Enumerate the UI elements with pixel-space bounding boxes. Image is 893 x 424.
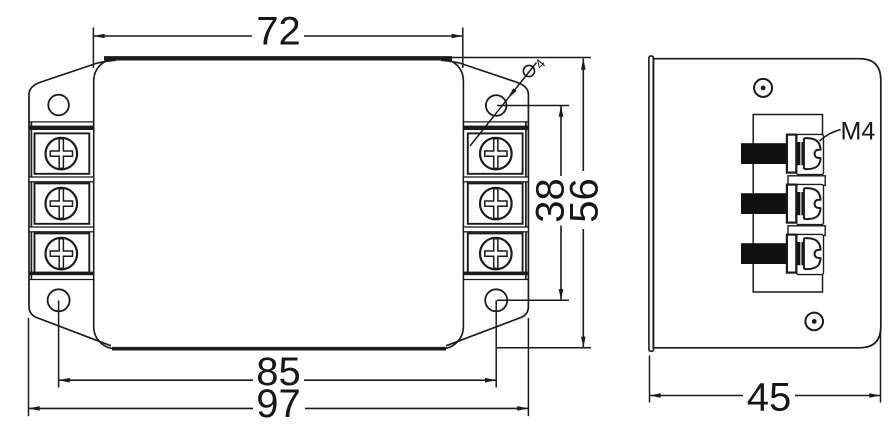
terminal 2 threaded shaft	[741, 193, 788, 214]
arrow right of 85	[485, 378, 496, 383]
terminal 2 pocket	[797, 184, 824, 224]
side view hairpin left edge	[649, 56, 654, 351]
arrow left of 85	[59, 378, 70, 383]
terminal 2 screw head M4	[804, 188, 821, 219]
arrow top of 38	[559, 106, 564, 117]
phillips screw L2	[46, 188, 78, 220]
side view case rectangle	[653, 59, 881, 348]
terminal 1 threaded shaft	[741, 143, 788, 164]
right terminal cell 2	[468, 183, 523, 223]
terminal housing rectangle	[753, 115, 822, 293]
mounting hole bottom-right	[485, 289, 507, 311]
terminal cell 1	[35, 133, 90, 173]
divider tab 1	[788, 176, 825, 186]
svg-text:72: 72	[256, 10, 301, 54]
right strip bottom thin line	[463, 279, 528, 281]
side hole bottom	[805, 313, 823, 331]
arrow bottom of 56	[581, 337, 586, 348]
left terminal strip	[29, 122, 94, 280]
right strip bottom thick bar	[463, 272, 528, 276]
terminals (drawn by script placeholder)	[741, 134, 824, 274]
arrow right of 97	[517, 406, 528, 411]
divider tab 2	[788, 226, 825, 236]
dimension 72 extension lines	[92, 28, 94, 69]
left screws (phillips)	[46, 138, 78, 270]
strip top thin line	[29, 121, 94, 123]
side hole top	[754, 79, 772, 97]
left flange (front view, left mounting ear)	[29, 60, 116, 346]
strip bottom thick bar	[29, 272, 94, 276]
mounting hole bottom-left	[48, 289, 70, 311]
dimension 38 extension lines	[497, 105, 569, 107]
dimension 72 line	[93, 35, 252, 37]
terminal 1 neck	[797, 142, 804, 165]
separator bar 2	[29, 227, 94, 232]
strip bottom thin line	[29, 279, 94, 281]
mounting hole top-right	[486, 95, 507, 116]
terminal 3 washer	[787, 235, 796, 273]
arrow left of 97	[29, 406, 40, 411]
right terminal strip	[463, 122, 528, 280]
svg-text:97: 97	[256, 382, 301, 424]
right strip inner vertical line	[525, 122, 527, 280]
terminal 3 screw head M4	[804, 238, 821, 269]
svg-text:56: 56	[563, 178, 607, 223]
phillips screw L1	[46, 138, 78, 170]
dimension 45 extension lines	[649, 356, 651, 403]
arrow right of 72	[452, 34, 463, 39]
right separator bar 1	[463, 177, 528, 182]
dimension 56 line	[582, 59, 584, 172]
right flange (front view, right mounting ear)	[441, 60, 528, 346]
dimension 85 extension lines	[58, 300, 60, 387]
right screws (phillips)	[480, 138, 512, 270]
dimension 97 line	[29, 407, 254, 409]
dimension 45 line	[650, 395, 744, 397]
svg-text:M4: M4	[841, 117, 876, 145]
diameter symbol circle	[523, 65, 534, 76]
phillips screw L3	[46, 238, 78, 270]
terminal cell 3	[35, 233, 90, 273]
right terminal cell 1	[468, 133, 523, 173]
right terminal cell 3	[468, 233, 523, 273]
terminal 2 washer	[787, 185, 796, 223]
terminal 1 screw head M4	[804, 138, 821, 169]
M4 leader line	[820, 130, 841, 142]
phillips screw R3	[480, 238, 512, 270]
right separator bar 2	[463, 227, 528, 232]
terminal 3 neck	[797, 242, 804, 265]
dimension 97 extension lines	[28, 318, 30, 416]
body bottom thick edge	[112, 347, 446, 351]
mounting hole top-left	[48, 95, 69, 116]
separator bar 1	[29, 177, 94, 182]
terminal cell 2	[35, 183, 90, 223]
filter body (front view rounded-rectangle case)	[94, 59, 464, 349]
leader line diameter 4	[470, 63, 537, 147]
terminal 3 threaded shaft	[741, 243, 788, 264]
terminal 1 pocket	[797, 134, 824, 174]
right strip top thick bar	[463, 126, 528, 130]
terminal 3 pocket	[797, 234, 824, 274]
svg-text:45: 45	[747, 376, 792, 420]
arrow bottom of 38	[559, 289, 564, 300]
arrow left of 72	[93, 34, 104, 39]
strip top thick bar	[29, 126, 94, 130]
strip inner vertical line	[30, 122, 32, 280]
phillips screw R1	[480, 138, 512, 170]
right strip top thin line	[463, 121, 528, 123]
dimension 85 line	[59, 379, 253, 381]
terminal 1 washer	[787, 135, 796, 173]
arrow right of 45	[869, 393, 880, 398]
body top thick edge	[104, 56, 452, 60]
arrow top of 56	[581, 59, 586, 70]
phillips screw R2	[480, 188, 512, 220]
terminal 2 neck	[797, 192, 804, 215]
arrow left of 45	[650, 393, 661, 398]
arrow of leader	[507, 88, 516, 99]
dimension 38 line	[560, 106, 562, 177]
dimension 56 extension lines	[441, 57, 591, 59]
